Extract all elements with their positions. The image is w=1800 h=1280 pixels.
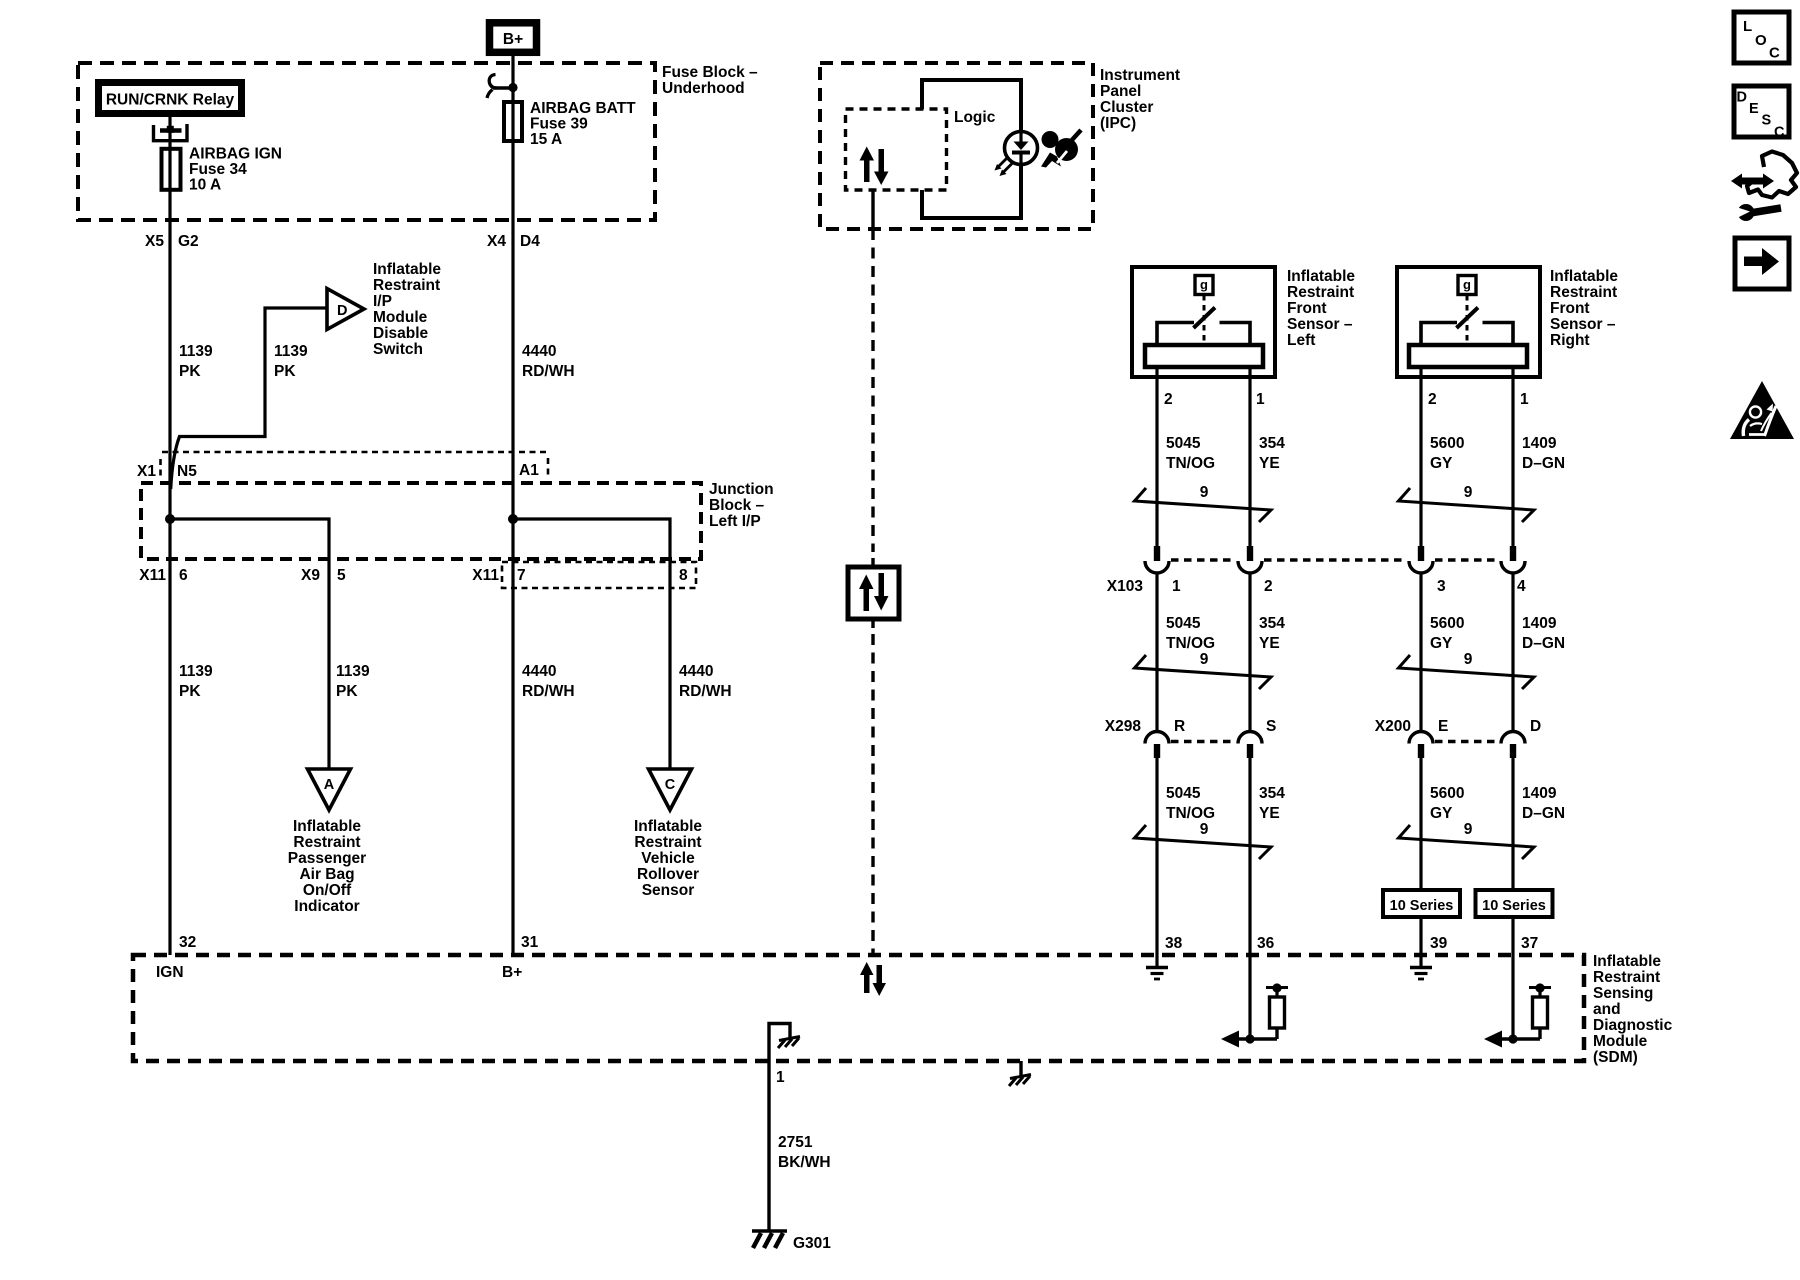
connector X103 dashed line [1171,558,1499,561]
svg-text:10 Series: 10 Series [1482,898,1546,914]
svg-text:AIRBAG BATT: AIRBAG BATT [530,100,636,117]
svg-text:TN/OG: TN/OG [1166,805,1215,822]
svg-text:1: 1 [1520,391,1529,408]
svg-text:1409: 1409 [1522,435,1557,452]
svg-text:Front: Front [1550,300,1590,317]
connector X11 fine dotted box (pins 7 8) [502,562,696,588]
svg-text:354: 354 [1259,785,1285,802]
svg-text:9: 9 [1464,651,1473,668]
svg-text:1139: 1139 [336,663,370,680]
Inflatable Restraint Sensing and Diagnostic Module (SDM) dashed box [133,955,1584,1061]
svg-text:RD/WH: RD/WH [522,363,575,380]
svg-text:PK: PK [274,363,296,380]
svg-text:Restraint: Restraint [1550,284,1617,301]
svg-text:B+: B+ [502,964,522,981]
right sensor label [1550,268,1618,349]
battery feed hook tap at fuse 39 [487,75,518,99]
wire relay to fuse 34 [168,117,171,149]
svg-text:9: 9 [1200,821,1209,838]
svg-text:354: 354 [1259,435,1285,452]
svg-text:RUN/CRNK Relay: RUN/CRNK Relay [106,92,235,109]
svg-text:Inflatable: Inflatable [373,261,441,278]
connector X200 pin D [1501,732,1525,759]
svg-text:4440: 4440 [522,343,556,360]
junction node dot right [508,514,518,524]
svg-text:AIRBAG IGN: AIRBAG IGN [189,146,282,163]
dashed serial data wire lower [871,619,874,628]
serial data arrows in IPC [860,147,889,186]
svg-text:8: 8 [679,567,688,584]
svg-text:4440: 4440 [679,663,713,680]
svg-text:9: 9 [1200,651,1209,668]
IPC serial data receiver dashed box [846,109,947,190]
svg-text:Restraint: Restraint [293,834,360,851]
svg-text:D: D [1737,90,1747,106]
svg-text:TN/OG: TN/OG [1166,635,1215,652]
svg-text:Right: Right [1550,332,1590,349]
svg-text:36: 36 [1257,935,1275,952]
svg-text:B+: B+ [503,31,523,48]
svg-text:X4: X4 [487,233,506,250]
ground symbol at SDM pin 38 [1146,955,1168,979]
svg-text:PK: PK [336,683,358,700]
wire labels row 1 [1166,435,1565,472]
resistor and arrow at pin 36 [1221,983,1288,1047]
wire 1409 D-GN segment 3 [1511,757,1514,888]
svg-text:4440: 4440 [522,663,556,680]
svg-text:Sensing: Sensing [1593,985,1653,1002]
svg-text:38: 38 [1165,935,1183,952]
svg-text:Block –: Block – [709,497,765,514]
wire 5600 GY segment 2 [1419,572,1422,731]
svg-text:5045: 5045 [1166,435,1201,452]
logic box [920,78,1023,220]
left sensor label [1287,268,1355,349]
svg-text:G301: G301 [793,1235,831,1252]
svg-text:1139: 1139 [274,343,308,360]
LOC reference box [1734,12,1789,63]
svg-text:15 A: 15 A [530,131,562,148]
wire labels row 3 [1166,785,1565,822]
triangle C vehicle rollover sensor [649,769,692,810]
connector X103 pin 4 [1501,546,1525,573]
disable switch label [373,261,441,358]
Fuse Block - Underhood dashed box [78,63,655,220]
svg-text:S: S [1762,113,1772,129]
svg-text:Instrument: Instrument [1100,67,1180,84]
svg-text:1139: 1139 [179,663,213,680]
svg-text:X9: X9 [301,567,320,584]
svg-text:1139: 1139 [179,343,213,360]
wire labels row 2 [1166,615,1565,652]
svg-text:Module: Module [373,309,428,326]
Instrument Panel Cluster dashed box [820,63,1093,229]
disable switch triangle D [327,289,364,330]
connector X298 pin R [1145,732,1169,759]
svg-text:and: and [1593,1001,1621,1018]
svg-text:X103: X103 [1107,578,1144,595]
svg-text:D–GN: D–GN [1522,805,1565,822]
svg-text:E: E [1438,718,1448,735]
svg-text:5600: 5600 [1430,615,1464,632]
wire 5045 TN/OG segment 2 [1155,572,1158,731]
airbag pictogram in IPC [1041,130,1081,168]
connector X298 dashed line [1171,740,1236,743]
triangle A passenger air bag indicator [308,769,351,810]
branch wire to disable switch [171,308,327,489]
svg-text:5: 5 [337,567,346,584]
svg-text:Front: Front [1287,300,1327,317]
svg-text:YE: YE [1259,805,1280,822]
fuse AIRBAG IGN Fuse 34 10 A [162,146,283,194]
svg-text:3: 3 [1437,578,1446,595]
svg-text:PK: PK [179,683,201,700]
svg-text:C: C [1769,45,1780,62]
triangle A label [288,818,366,915]
svg-text:Panel: Panel [1100,83,1141,100]
10 Series box left [1383,890,1460,917]
svg-text:Inflatable: Inflatable [634,818,702,835]
svg-text:6: 6 [179,567,188,584]
svg-text:9: 9 [1464,821,1473,838]
svg-text:N5: N5 [177,463,197,480]
svg-text:Switch: Switch [373,341,423,358]
twisted pair symbol row 2 right [1399,655,1535,689]
relay output pin connector symbol [154,124,188,141]
Junction Block - Left I/P dashed box [141,483,701,559]
svg-text:g: g [1200,277,1208,292]
svg-text:1409: 1409 [1522,615,1557,632]
svg-text:2: 2 [1164,391,1173,408]
svg-text:L: L [1743,18,1752,35]
wire 5045 TN/OG segment 1 [1155,367,1158,546]
svg-text:Cluster: Cluster [1100,99,1153,116]
svg-text:D4: D4 [520,233,540,250]
svg-text:4: 4 [1517,578,1526,595]
wire SDM pin 37 internal [1511,955,1514,1039]
svg-text:S: S [1266,718,1276,735]
twisted pair symbol row 1 right [1399,488,1535,522]
svg-text:YE: YE [1259,455,1280,472]
svg-text:Inflatable: Inflatable [293,818,361,835]
svg-text:A1: A1 [519,462,539,479]
svg-text:PK: PK [179,363,201,380]
svg-text:Inflatable: Inflatable [1287,268,1355,285]
connector X103 pin 2 [1238,546,1262,573]
wire 354 YE segment 2 [1248,572,1251,731]
svg-text:Module: Module [1593,1033,1648,1050]
svg-text:Underhood: Underhood [662,80,745,97]
svg-text:G2: G2 [178,233,199,250]
twisted pair symbol row 3 right [1399,825,1535,859]
svg-text:Left: Left [1287,332,1315,349]
svg-text:Fuse 34: Fuse 34 [189,161,247,178]
connector X103 pin 3 [1409,546,1433,573]
svg-text:2: 2 [1264,578,1273,595]
svg-text:39: 39 [1430,935,1448,952]
wire 1409 D-GN segment 4 [1511,919,1514,955]
wire 5600 GY segment 1 [1419,367,1422,546]
chassis ground symbol inside SDM [778,1037,800,1049]
svg-text:C: C [1774,125,1785,141]
connector X298 pin S [1238,732,1262,759]
svg-text:Inflatable: Inflatable [1550,268,1618,285]
svg-text:A: A [324,777,335,793]
svg-text:R: R [1174,718,1185,735]
svg-text:9: 9 [1200,484,1209,501]
svg-text:D–GN: D–GN [1522,455,1565,472]
ground symbol at SDM pin 39 [1410,955,1432,979]
wire 354 YE segment 3 [1248,757,1251,955]
svg-text:GY: GY [1430,635,1453,652]
svg-text:Inflatable: Inflatable [1593,953,1661,970]
svg-text:C: C [665,777,676,793]
svg-text:10 Series: 10 Series [1390,898,1454,914]
svg-text:Vehicle: Vehicle [641,850,695,867]
resistor and arrow at pin 37 [1484,983,1551,1047]
Inflatable Restraint Front Sensor - Right box [1397,267,1540,377]
airbag caution triangle [1730,381,1794,439]
svg-text:O: O [1755,32,1767,49]
svg-text:Diagnostic: Diagnostic [1593,1017,1673,1034]
ground G301 [752,1231,831,1252]
serial data arrows inside SDM [860,962,886,996]
forward arrow box [1735,238,1789,289]
svg-text:TN/OG: TN/OG [1166,455,1215,472]
svg-text:Air Bag: Air Bag [299,866,354,883]
serial data symbol box (mid page) [848,567,899,619]
svg-text:5600: 5600 [1430,435,1464,452]
svg-text:Logic: Logic [954,109,996,126]
svg-text:X11: X11 [472,567,499,584]
svg-text:Sensor –: Sensor – [1287,316,1353,333]
svg-text:1409: 1409 [1522,785,1557,802]
svg-text:GY: GY [1430,455,1453,472]
svg-text:Rollover: Rollover [637,866,699,883]
junction wire to pin 8 [513,519,670,769]
10 Series box right [1476,890,1553,917]
svg-text:X298: X298 [1105,718,1142,735]
Junction Block label [709,481,774,530]
wire 1409 D-GN segment 1 [1511,367,1514,546]
svg-text:Sensor: Sensor [642,882,695,899]
svg-text:37: 37 [1521,935,1538,952]
dashed serial data wire upper [871,229,874,552]
connector X200 dashed line [1435,740,1499,743]
wire SDM pin 36 internal [1248,955,1251,1039]
svg-text:g: g [1463,277,1471,292]
svg-text:7: 7 [517,567,526,584]
svg-text:X200: X200 [1375,718,1411,735]
relay RUN/CRNK [99,83,242,114]
svg-text:IGN: IGN [156,964,184,981]
svg-text:BK/WH: BK/WH [778,1154,831,1171]
SDM label [1593,953,1673,1066]
svg-text:1: 1 [1256,391,1265,408]
svg-text:Passenger: Passenger [288,850,366,867]
svg-text:5600: 5600 [1430,785,1464,802]
svg-text:X5: X5 [145,233,164,250]
wire 5045 TN/OG segment 3 [1155,757,1158,955]
wire from B+ to Fuse 39 [511,55,514,101]
wire from IPC serial box down [871,190,874,229]
airbag indicator LED [995,132,1038,177]
svg-text:5045: 5045 [1166,615,1201,632]
svg-text:Restraint: Restraint [1287,284,1354,301]
svg-text:1: 1 [776,1069,785,1086]
svg-text:Fuse 39: Fuse 39 [530,116,588,133]
chassis ground symbol on SDM bottom edge [1009,1061,1031,1086]
connector X200 pin E [1409,732,1433,759]
svg-text:Restraint: Restraint [373,277,440,294]
svg-text:Junction: Junction [709,481,774,498]
svg-text:I/P: I/P [373,293,392,310]
svg-text:31: 31 [521,934,539,951]
svg-text:E: E [1749,101,1759,117]
svg-text:GY: GY [1430,805,1453,822]
svg-text:D: D [1530,718,1541,735]
wire 1409 D-GN segment 2 [1511,572,1514,731]
svg-text:D: D [337,303,347,319]
triangle C label [634,818,702,899]
svg-text:32: 32 [179,934,196,951]
wire 5600 GY segment 4 [1419,919,1422,955]
svg-text:354: 354 [1259,615,1285,632]
B+ power feed symbol [490,23,537,53]
svg-text:5045: 5045 [1166,785,1201,802]
twisted pair symbol row 2 left [1135,655,1272,689]
wrench and arrows icon [1731,152,1797,222]
svg-text:X1: X1 [137,463,156,480]
svg-text:Restraint: Restraint [1593,969,1660,986]
ground wire 2751 BK/WH [767,1038,770,1231]
connector X1 dotted line [161,452,549,478]
wire 354 YE segment 1 [1248,367,1251,546]
junction node dot left [165,514,175,524]
svg-text:2751: 2751 [778,1134,813,1151]
svg-text:D–GN: D–GN [1522,635,1565,652]
svg-text:(SDM): (SDM) [1593,1049,1638,1066]
svg-text:RD/WH: RD/WH [679,683,732,700]
svg-text:RD/WH: RD/WH [522,683,575,700]
IPC label [1100,67,1180,132]
twisted pair symbol row 3 left [1135,825,1272,859]
junction wire to X9 pin 5 [170,519,329,769]
svg-text:Restraint: Restraint [634,834,701,851]
Inflatable Restraint Front Sensor - Left box [1132,267,1275,377]
connector X103 pin 1 [1145,546,1169,573]
svg-text:10 A: 10 A [189,177,221,194]
svg-text:YE: YE [1259,635,1280,652]
svg-text:2: 2 [1428,391,1437,408]
SDM internal chassis ground jog [769,1024,790,1039]
wire 5600 GY segment 3 [1419,757,1422,888]
svg-text:Indicator: Indicator [294,898,359,915]
svg-text:1: 1 [1172,578,1181,595]
wire 1139 PK ignition (X5-G2 down to SDM pin 32) [168,191,171,955]
svg-text:9: 9 [1464,484,1473,501]
svg-text:Left I/P: Left I/P [709,513,761,530]
fuse AIRBAG BATT Fuse 39 15 A [504,100,636,148]
svg-text:Disable: Disable [373,325,429,342]
wire 4440 RD/WH battery (X4-D4 down to SDM pin 31) [511,143,514,955]
svg-text:Fuse Block –: Fuse Block – [662,64,758,81]
svg-text:Sensor –: Sensor – [1550,316,1616,333]
svg-text:(IPC): (IPC) [1100,115,1136,132]
svg-text:On/Off: On/Off [303,882,352,899]
svg-text:X11: X11 [139,567,166,584]
twisted pair symbol row 1 left [1135,488,1272,522]
DESC reference box [1734,86,1789,141]
